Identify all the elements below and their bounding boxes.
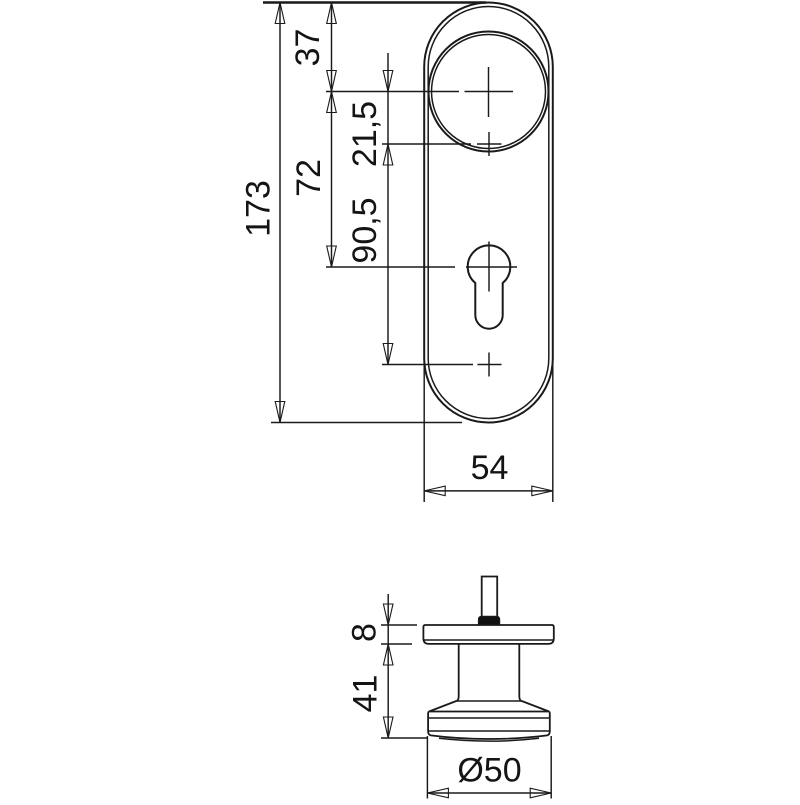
dimension line 54: [424, 486, 553, 496]
extension line 8 top: [381, 624, 417, 626]
knob spindle stem: [482, 577, 498, 617]
svg-text:41: 41: [347, 675, 385, 713]
plate inner edge line: [428, 7, 549, 419]
knob rose flange: [423, 625, 553, 644]
extension line knob center: [326, 91, 459, 93]
knob head bottom face curve: [439, 738, 539, 741]
extension line upper screw: [382, 143, 471, 145]
extension line 54 right: [552, 358, 554, 502]
extension line diameter right: [550, 736, 552, 799]
extension line 41 bottom: [381, 737, 428, 739]
svg-text:72: 72: [290, 159, 328, 197]
knob center crosshair: [465, 67, 514, 117]
knob head outline: [428, 712, 550, 740]
lower screw hole crosshair: [478, 353, 502, 377]
dimension line 21,5 / 90,5: [383, 53, 393, 365]
dimension line diameter 50: [427, 788, 551, 798]
euro profile cylinder hole: [468, 245, 511, 328]
flange lower edge line: [423, 639, 553, 641]
knob head rim line: [428, 717, 550, 719]
knob rose outer circle: [429, 32, 549, 152]
upper screw hole crosshair: [477, 132, 502, 156]
svg-text:8: 8: [346, 623, 384, 642]
knob rose inner circle: [432, 35, 546, 149]
extension line euro center: [326, 266, 455, 268]
knob neck left: [456, 644, 458, 701]
extension line 54 left: [423, 358, 425, 502]
svg-text:54: 54: [471, 449, 509, 487]
shoulder cone left: [429, 701, 456, 712]
plate outer outline: [424, 3, 553, 423]
neck collar line: [456, 700, 521, 702]
svg-text:37: 37: [289, 29, 327, 67]
svg-text:90,5: 90,5: [346, 197, 384, 263]
extension line diameter left: [426, 736, 428, 799]
top extension line: [263, 1, 486, 4]
dimension line 37 / 72: [327, 3, 337, 268]
shoulder cone right: [522, 701, 549, 712]
knob head lower band line: [428, 730, 550, 732]
svg-text:173: 173: [240, 180, 278, 237]
spindle nut block (filled): [478, 616, 499, 625]
euro hole crosshair: [466, 242, 517, 292]
svg-text:Ø50: Ø50: [457, 752, 521, 790]
bottom extension line: [271, 422, 462, 424]
dimension line 8 / 41: [383, 594, 393, 738]
svg-text:21,5: 21,5: [346, 101, 384, 167]
extension line lower screw: [382, 364, 473, 366]
knob neck right: [519, 644, 521, 701]
dimension line 173: [275, 3, 285, 423]
extension line 8 bottom: [381, 643, 412, 645]
